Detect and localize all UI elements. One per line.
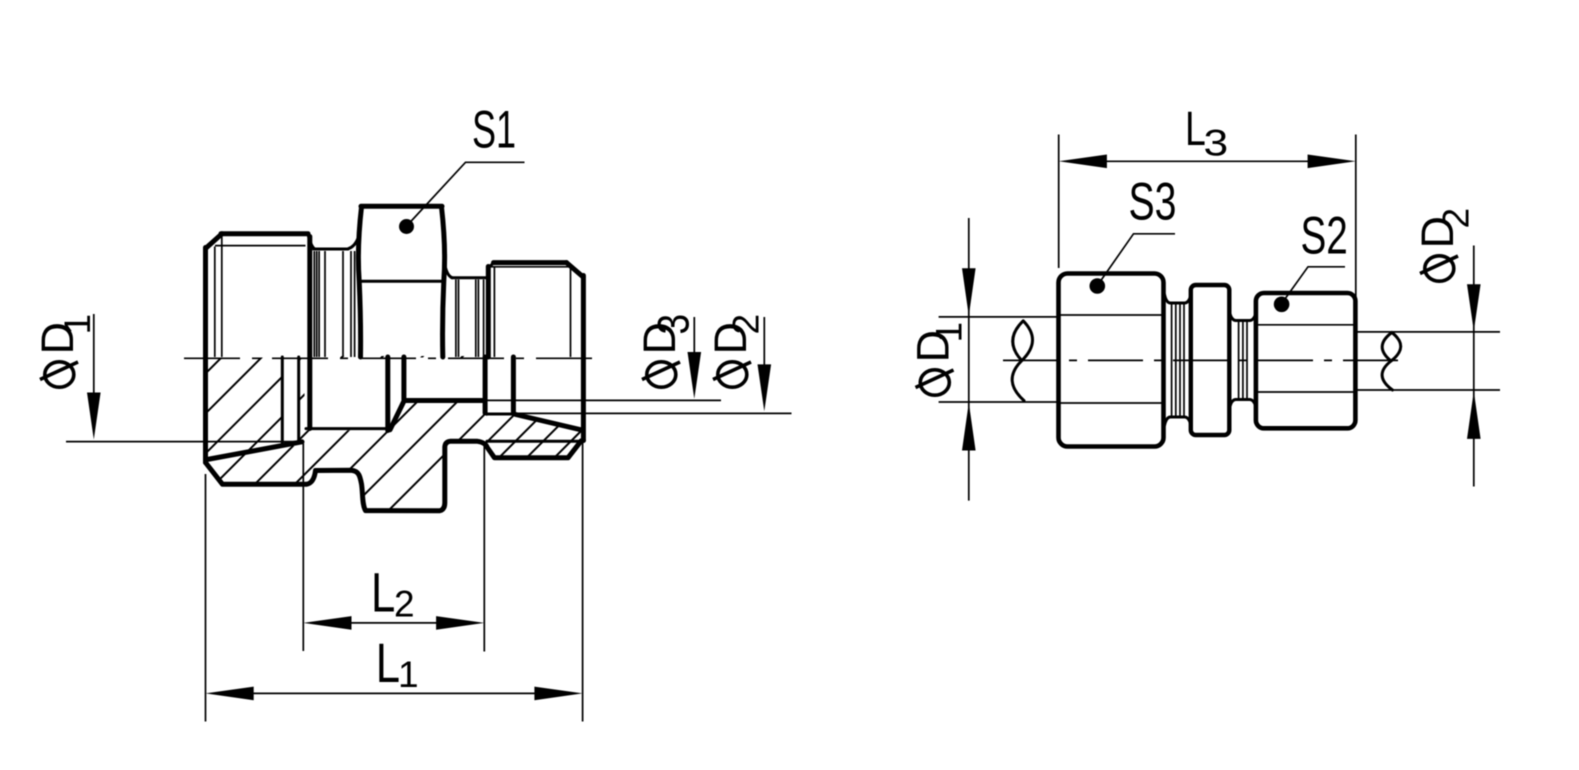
- neck2 thin verticals: [1239, 322, 1247, 399]
- label S1 leader dot: [399, 219, 414, 234]
- neck2 bottom edge with fillets: [1230, 400, 1256, 408]
- left block inner vertical 2: [221, 236, 223, 358]
- thread thin verticals: [314, 251, 351, 357]
- centerline left drawing: [184, 357, 600, 359]
- bore bottom edge: [306, 427, 389, 430]
- svg-text:1: 1: [398, 654, 419, 695]
- tube end left edge: [483, 357, 488, 413]
- right block top edge: [494, 260, 567, 265]
- right block top-right chamfer: [567, 263, 584, 277]
- right block inner verticals: [494, 267, 570, 357]
- hex S1 top edge: [361, 204, 442, 209]
- fillet thread top to S1 hex: [348, 236, 359, 249]
- svg-text:S1: S1: [472, 100, 516, 160]
- body hatching: [0, 352, 547, 766]
- nut S3 hex flat lines: [1060, 315, 1164, 403]
- phiD2 right dimension arrows: [1473, 246, 1475, 487]
- phiD2 dimension line and arrow: [763, 317, 765, 365]
- leader line phiD3: [485, 399, 722, 401]
- right tube break symbol: [1382, 333, 1401, 391]
- collar top edge: [452, 276, 486, 279]
- seal washer right edge: [297, 357, 300, 442]
- svg-text:S2: S2: [1301, 206, 1348, 265]
- stub chamfer diagonal: [390, 400, 404, 429]
- left block inner top thin line: [215, 245, 306, 247]
- S2 leader line: [1284, 267, 1346, 301]
- neck1 top edge with fillets: [1165, 295, 1191, 304]
- S2 leader dot: [1274, 297, 1290, 313]
- nut mid split line: [487, 440, 581, 443]
- stub right edge: [401, 357, 406, 400]
- nut hatching: [135, 352, 660, 766]
- phiD1 right dimension arrows: [968, 218, 970, 501]
- svg-text:S3: S3: [1129, 172, 1177, 231]
- left tube top line: [939, 316, 1058, 318]
- fillet block to thread top: [308, 234, 315, 249]
- S3 leader dot: [1090, 278, 1106, 294]
- phiD1 label left drawing: [32, 314, 98, 387]
- leader line phiD2: [516, 412, 792, 414]
- svg-text:2: 2: [394, 584, 415, 625]
- phiD3 dimension line and arrow: [693, 317, 695, 353]
- collar thin verticals: [456, 280, 484, 358]
- left tube break symbol: [1012, 321, 1032, 401]
- svg-text:3: 3: [648, 314, 698, 335]
- left block (male stud body) top edge: [221, 231, 308, 236]
- phiD1 leader horizontal: [66, 441, 301, 443]
- svg-text:L: L: [371, 561, 395, 623]
- right tube bottom line: [1356, 389, 1500, 391]
- fillet S1 to collar: [444, 262, 452, 278]
- label S1 leader line: [411, 162, 525, 221]
- L2 extension lines: [303, 443, 484, 652]
- cone top edge: [404, 398, 485, 403]
- nut cone slant line: [516, 415, 581, 430]
- S3 leader line: [1100, 234, 1176, 283]
- neck1 bottom edge with fillets: [1165, 417, 1191, 426]
- tube end right edge: [511, 357, 516, 412]
- centerline right drawing: [1003, 359, 1406, 361]
- middle hex body: [1191, 285, 1230, 435]
- phiD3 label: [634, 314, 698, 387]
- neck1 thin verticals: [1172, 304, 1184, 416]
- thread slant line in section: [207, 442, 302, 460]
- L1 dimension line: [252, 692, 536, 694]
- svg-text:L: L: [376, 632, 400, 694]
- right tube top line: [1356, 331, 1500, 333]
- right block top-left chamfer: [488, 263, 494, 269]
- stub left edge below hex: [385, 357, 390, 431]
- svg-text:2: 2: [1436, 208, 1477, 229]
- L1 extension lines: [206, 442, 583, 722]
- hex S1 right edge: [442, 207, 445, 357]
- thread section top edge: [314, 248, 349, 251]
- hex S1 chamfer mid line: [360, 280, 444, 283]
- phiD1 dimension line and arrow: [93, 314, 95, 393]
- left tube bottom line: [939, 401, 1058, 403]
- phiD2 label left drawing: [705, 314, 767, 387]
- right block left edge: [486, 267, 491, 358]
- seal washer left edge: [281, 357, 284, 444]
- left block outer left edge: [203, 248, 208, 463]
- section outline bottom half: [206, 441, 584, 511]
- svg-text:1: 1: [929, 322, 970, 343]
- L3 dimension line: [1105, 160, 1309, 162]
- left block right edge (continues to bore bottom): [307, 237, 312, 429]
- svg-text:2: 2: [726, 314, 767, 335]
- left block top-left chamfer: [206, 234, 223, 249]
- phiD1 label right drawing: [908, 322, 970, 395]
- neck2 top edge with fillets: [1230, 313, 1256, 321]
- right block right edge continuing to nut corner: [581, 276, 586, 441]
- L2 dimension line: [350, 622, 437, 624]
- nut S3 body: [1059, 274, 1164, 447]
- thread vertical medium: [354, 251, 356, 357]
- nut S2 body: [1256, 293, 1356, 428]
- tube end bottom edge: [485, 413, 516, 416]
- right block inner top thin line: [490, 266, 570, 268]
- nut S2 hex flat lines: [1257, 325, 1354, 392]
- svg-text:1: 1: [57, 314, 98, 335]
- hex S1 left edge: [358, 207, 361, 357]
- svg-text:3: 3: [1204, 122, 1229, 164]
- L3 extension lines: [1059, 135, 1356, 330]
- left block inner vertical 1: [214, 247, 216, 358]
- phiD2 label right drawing: [1412, 208, 1477, 281]
